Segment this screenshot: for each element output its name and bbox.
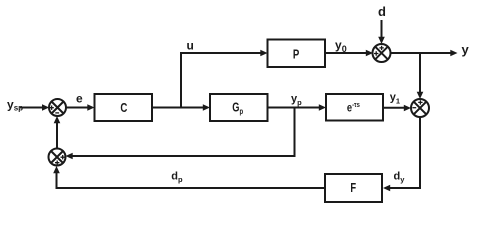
wire Gp to delay block (268, 104, 327, 111)
block F (325, 174, 382, 202)
svg-text:Gp: Gp (232, 101, 243, 116)
wire y: S3 to output (391, 50, 458, 57)
block P (268, 40, 326, 68)
svg-text:dp: dp (171, 170, 183, 184)
svg-text:F: F (350, 182, 356, 196)
svg-text:y1: y1 (390, 92, 400, 106)
svg-text:d: d (378, 4, 386, 19)
summing junction S2 (49, 149, 66, 166)
wire y branch down to S4 (417, 53, 424, 99)
block C (95, 94, 153, 121)
block Gp (210, 94, 268, 121)
svg-text:e: e (76, 92, 83, 106)
svg-text:u: u (187, 39, 194, 53)
wire y_p branch down to S2 (66, 108, 295, 160)
wire S1 to C (66, 104, 95, 111)
block delay e^-ts (326, 94, 383, 121)
svg-text:P: P (293, 48, 300, 62)
summing junction S3 (373, 44, 391, 62)
svg-text:C: C (120, 102, 127, 116)
svg-text:y: y (462, 42, 470, 57)
summing junction S1 (49, 99, 66, 116)
svg-text:e-τs: e-τs (347, 102, 360, 115)
wire S4 down to F (383, 117, 420, 191)
wire u branch to P (181, 50, 268, 108)
wire d to S3 (378, 20, 385, 44)
wire S2 up to S1 (54, 116, 61, 149)
wire y0: P to S3 (325, 50, 373, 57)
svg-text:y0: y0 (335, 38, 347, 54)
wire C to Gp (152, 104, 210, 111)
wire y1: delay to S4 (383, 105, 411, 112)
wire d_p: F to S2 (53, 166, 325, 188)
wire y_sp to S1 (20, 104, 49, 111)
summing junction S4 (411, 99, 429, 117)
svg-text:dy: dy (394, 170, 406, 184)
svg-text:ysp: ysp (7, 98, 23, 113)
svg-text:yp: yp (291, 93, 302, 107)
